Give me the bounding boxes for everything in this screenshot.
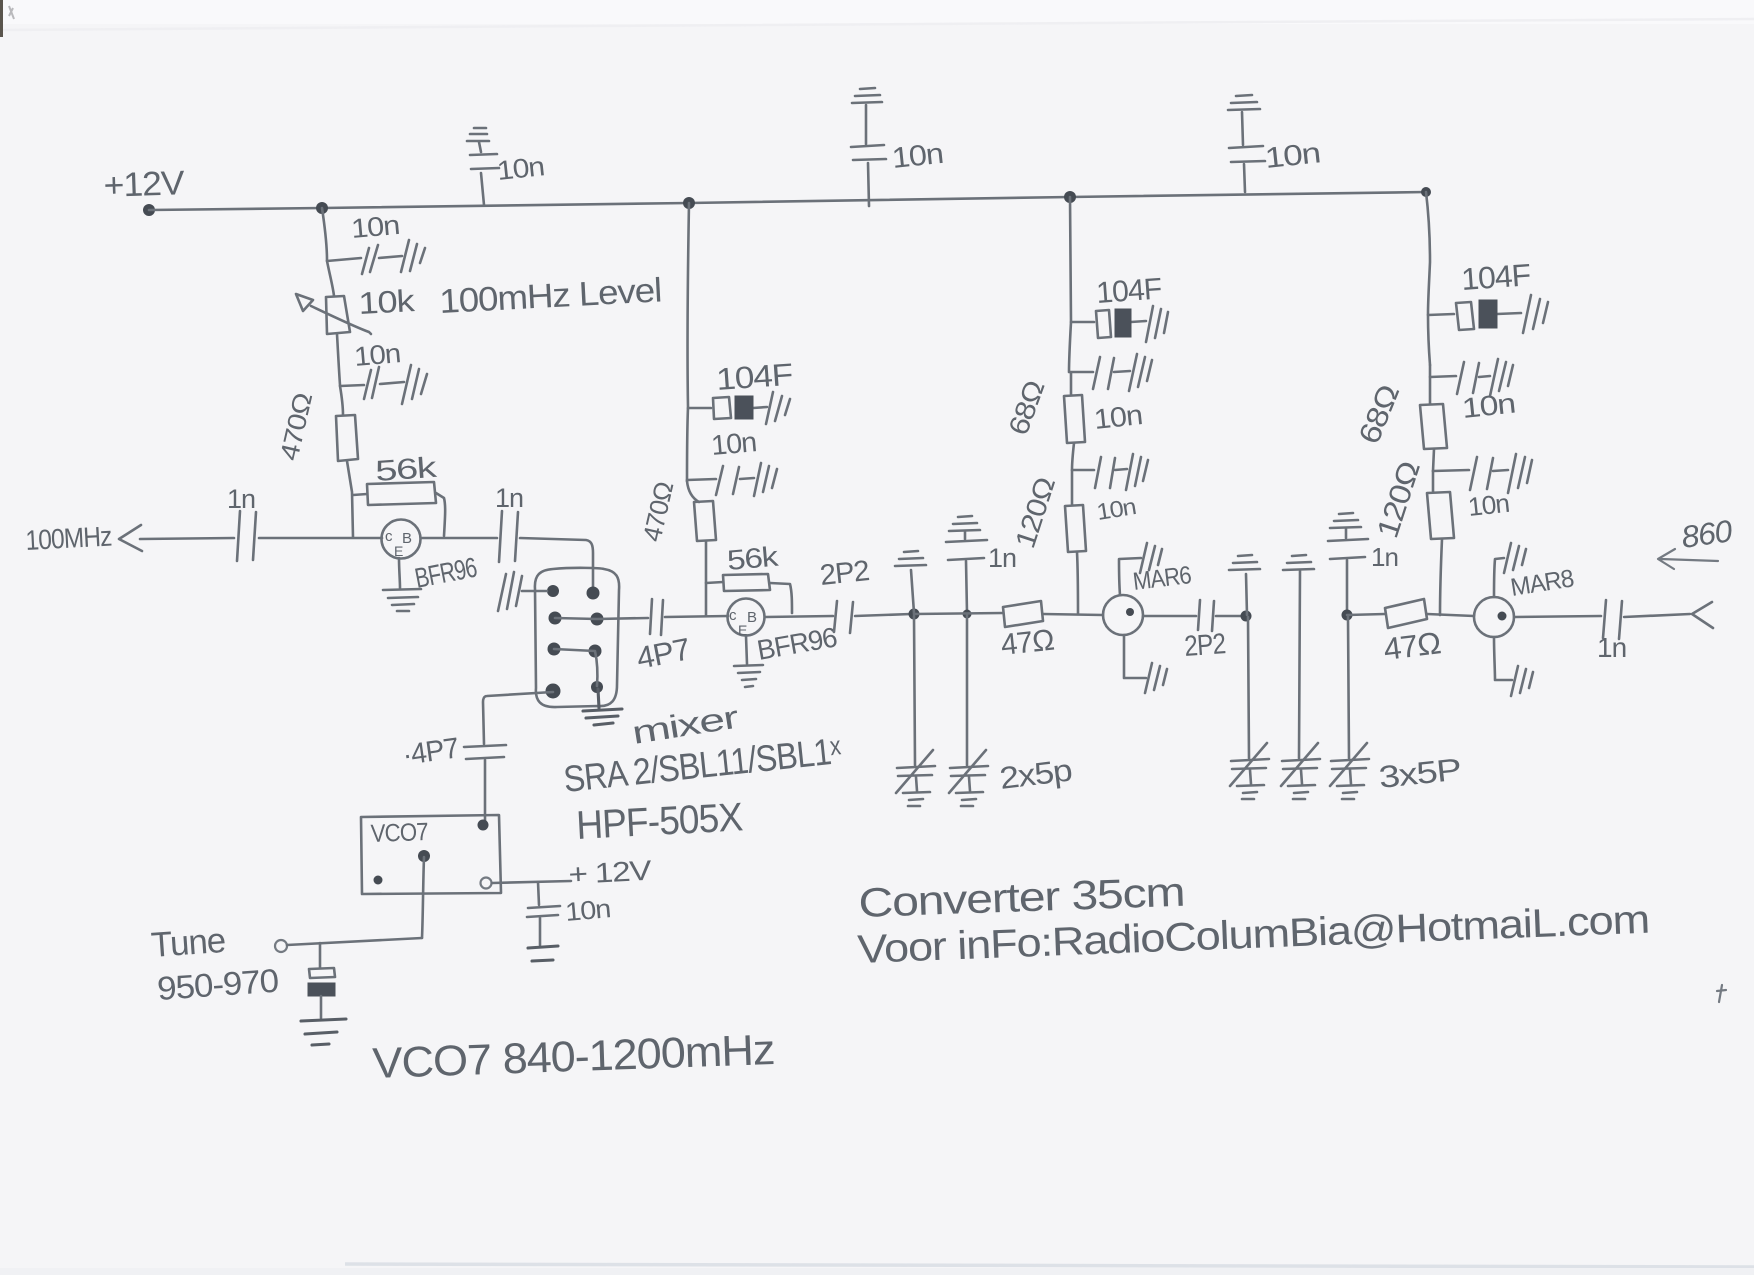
capacitor 1n output [237,511,256,561]
wire MAR8 out [1514,616,1601,617]
capacitor 1n vertical (junction B) [949,516,980,531]
wire left branch from rail [322,208,327,260]
capacitor 2P2 MAR6 out [1198,600,1214,631]
wire emitter [399,558,400,588]
ground MAR6 top [1119,558,1141,595]
ground mixer pin [583,689,622,725]
open port bars at mixer LO-left [498,572,522,611]
ground bars [1508,454,1532,493]
svg-text:100MHz: 100MHz [25,521,113,556]
svg-text:1n: 1n [1371,542,1398,572]
svg-text:47Ω: 47Ω [999,624,1055,662]
amplifier MAR8 [1474,597,1514,637]
node rail right corner [1421,187,1431,197]
wire 47ohm to MAR6 [1043,614,1103,615]
svg-text:10n: 10n [1092,399,1143,435]
wire VCO mid pin down [422,857,424,938]
potentiometer 10k [296,294,371,334]
VCO box [361,815,501,894]
connector chevron (antenna input) [1692,602,1713,628]
capacitor 10n rail bypass 2 [851,88,886,206]
capacitor 10n VCO supply [527,882,560,945]
wire mixer row3 internal [554,649,597,686]
wire [337,334,340,385]
capacitor 10n pot-top decouple [327,245,402,274]
svg-text:2P2: 2P2 [1183,628,1226,663]
ground above junction A [911,570,914,613]
resistor 68ohm MAR6 [1064,373,1085,443]
resistor 120ohm MAR6 [1065,471,1086,552]
svg-text:B: B [747,609,757,626]
svg-text:2P2: 2P2 [818,555,870,592]
node VCO pin left [374,876,383,885]
capacitor 2P2 stage2 out [834,601,853,633]
capacitor 10n rail bypass 1 [467,128,499,205]
capacitor 4P7 LO from VCO [464,745,506,759]
svg-text:Tune: Tune [150,921,227,965]
wire junctions to 47ohm [914,613,1003,614]
wire 2P2 to junction C [1216,615,1243,618]
svg-text:1n: 1n [227,484,255,514]
wire 47ohm to MAR8 [1427,614,1474,616]
node rail junction 2 [683,197,695,209]
svg-text:10n: 10n [1460,388,1516,424]
wire [347,461,353,537]
resistor 68ohm MAR8 [1420,365,1447,449]
filter 104F MAR8 [1428,302,1521,330]
resistor 470ohm stage2 [687,481,699,502]
capacitor 10n stage2 [687,466,754,495]
wire junction D to 47ohm [1347,614,1385,615]
ground above junction C [1246,574,1247,615]
filter 104F stage2 [688,397,767,419]
svg-text:10n: 10n [1263,137,1321,175]
ground bars (104F MAR8) [1523,295,1548,333]
wire mixer bottom-left to LO cap [483,692,553,744]
wire emitter Q2 [746,636,747,664]
trimmer capacitor 3x5P a [1248,617,1249,758]
wire top +12V rail [149,192,1426,210]
resistor 47ohm stage3 [1003,601,1043,627]
wire MAR6 out [1143,615,1196,618]
wire cap to junction D [1346,560,1349,613]
node rail junction 1 [316,202,328,214]
svg-text:1n: 1n [1597,632,1626,663]
ground bars [1129,354,1152,391]
resistor 56k stage1 [353,482,445,536]
transistor Q2 BFR96 [728,599,765,636]
node junction C [1241,611,1252,622]
wire VCO +12V feed [492,881,571,883]
svg-text:56k: 56k [374,452,438,488]
capacitor 10n MAR6 upper [1070,357,1130,389]
svg-text:104F: 104F [1095,272,1163,310]
capacitor 4P7 IF coupling [650,599,663,635]
svg-text:VCO7: VCO7 [370,818,428,848]
ground tune bypass [301,1019,346,1045]
svg-text:1n: 1n [988,543,1016,573]
ground MAR8 bottom [1494,637,1512,680]
svg-text:10n: 10n [350,210,400,244]
capacitor 1n vertical (junction D) [1330,513,1361,528]
mixer pin dots [547,585,559,597]
wire MAR6 bias branch from rail [1069,197,1071,372]
svg-text:+ 12V: + 12V [568,855,653,890]
trimmer capacitor 2x5p b [966,615,969,765]
wire base to coupling cap [421,537,497,540]
svg-text:+12V: +12V [103,164,186,205]
capacitor 10n MAR6 lower [1072,443,1127,488]
amplifier MAR6 [1103,595,1143,635]
ground Q1 emitter [383,589,421,611]
wire stage2 branch from rail [687,203,689,481]
arrow 860 input direction [1658,549,1718,569]
wire [340,386,343,415]
resistor 47ohm stage4 [1385,599,1427,628]
ground MAR6 bottom [1124,635,1146,678]
capacitor 1n LO coupling [499,511,518,562]
wire [259,537,382,540]
trimmer capacitor 3x5P c [1348,617,1349,758]
wire collector line left [140,538,234,539]
svg-text:10n: 10n [890,138,944,175]
wire MAR8 bias branch from rail corner [1426,192,1430,314]
wire 120ohm to signal [1077,552,1078,614]
node rail junction 3 [1064,191,1076,203]
capacitor 10n pot-bottom decouple [340,367,404,399]
svg-text:10n: 10n [1466,488,1510,522]
resistor 470ohm stage1 [336,415,358,461]
capacitor tune bypass [319,943,322,968]
svg-text:1n: 1n [495,483,523,513]
node +12V terminal [143,204,155,216]
wire port bars to pin [522,590,547,593]
svg-text:E: E [394,543,403,559]
wire Tune line [287,938,422,945]
trimmer capacitor 3x5P b [1299,571,1300,758]
wire 4P7 to VCO box [484,760,487,822]
ground MAR8 top [1494,558,1504,597]
svg-text:47Ω: 47Ω [1382,625,1443,667]
ground bars [1490,359,1513,396]
ground bars (104F MAR6) [1146,306,1168,342]
svg-text:104F: 104F [1460,257,1531,297]
ground bars (104F stage2) [766,392,790,424]
svg-text:104F: 104F [715,357,793,397]
wire into mixer top-right pin [520,538,593,587]
capacitor 1n antenna coupling [1603,600,1622,639]
pencil tick bottom right [1717,985,1726,1002]
ground bars (pot-bottom cap) [402,365,427,404]
wire collector Q2 [765,616,833,617]
svg-text:860: 860 [1679,513,1734,555]
ground bars [1126,454,1148,490]
node VCO pin top [478,820,489,831]
ground bars (10n stage2) [754,463,777,496]
wire [705,541,708,616]
wire 4P7 to stage2 base [665,616,728,617]
node VCO pin mid [418,850,430,862]
trimmer capacitor 2x5p a [914,616,915,765]
wire 120ohm to signal [1440,539,1442,615]
node Tune terminal (ring) [275,940,287,952]
svg-text:10k: 10k [358,283,417,321]
resistor 56k stage2 [706,574,792,613]
svg-text:10n: 10n [353,338,401,372]
ground Q2 emitter [734,665,763,687]
wire [327,261,334,296]
svg-text:10n: 10n [495,151,545,186]
wire to filter junction [855,614,911,616]
node filter junction A [909,609,920,620]
svg-text:10n: 10n [710,426,758,461]
capacitor 10n rail bypass 3 [1228,95,1265,192]
svg-text:10n: 10n [564,893,611,927]
resistor 120ohm MAR8 [1427,471,1454,539]
ground VCO 10n [528,946,558,961]
svg-text:B: B [402,530,412,547]
svg-text:HPF-505X: HPF-505X [575,795,743,848]
ground above trimmer b [1283,555,1314,570]
node VCO pin right (ring) [481,878,492,889]
wire 100MHz output arrow [119,525,142,551]
mixer SRA2/SBL11 box [535,568,619,707]
transistor Q1 BFR96 [382,520,421,559]
capacitor 10n MAR8 upper [1428,315,1490,394]
filter 104F MAR6 [1071,310,1146,338]
svg-text:56k: 56k [726,541,781,576]
wire mixer row2 internal + out [555,618,648,619]
capacitor 10n MAR8 lower [1433,449,1508,490]
node junction B [963,610,972,619]
node junction D [1342,610,1353,621]
ground bars (pot-top cap) [401,240,425,272]
wire cap to junction B [966,561,967,613]
wire 1n to connector [1624,614,1690,617]
